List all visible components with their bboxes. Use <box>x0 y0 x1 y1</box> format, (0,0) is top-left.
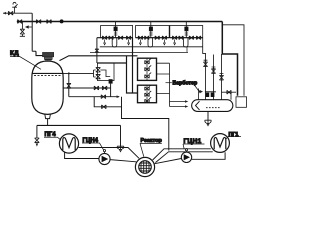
wire: drop from group1 bottom x132.5 <box>132 38 134 93</box>
wire: KD spray trunk y73.4 <box>63 70 96 77</box>
pump GCN4 <box>99 153 110 164</box>
lower IPU valve 1 <box>145 85 151 91</box>
group1 header line <box>97 37 133 39</box>
group2 loop seal <box>148 38 153 47</box>
pump GCN1 <box>181 152 191 162</box>
injection box top line <box>97 62 126 64</box>
wire: drop A to B at x187 <box>186 47 188 53</box>
group3 stub arrows <box>174 40 176 45</box>
upper IPU valve 3 <box>145 73 151 79</box>
wire: top-left relief line y13 <box>3 12 32 14</box>
wire: vertical x111 blob to y96.7 <box>110 84 112 97</box>
funnel under surge line <box>117 146 124 151</box>
bubbler top pad 1 <box>206 93 210 97</box>
group1 actuator stem <box>115 22 117 38</box>
group3 actuator stem <box>185 22 187 38</box>
arrow into bubbler lower <box>185 105 188 107</box>
group3 valve 1 <box>173 36 177 40</box>
group1 valve 4 <box>127 36 131 40</box>
svg-text:Барботер: Барботер <box>173 80 198 87</box>
wire: bubbler pipe 1 <box>203 38 206 100</box>
wire: T drop x126.5 to lower IPU box <box>127 56 138 93</box>
label Barboter <box>166 82 172 84</box>
group1 valve 3 <box>119 36 123 40</box>
reactor vessel <box>135 157 154 176</box>
group3 valve 4 <box>197 36 201 40</box>
wire: KD nozzle y88 <box>63 87 111 89</box>
wire: pump GCN4 to reactor <box>110 160 136 162</box>
injection internal link <box>100 70 110 77</box>
bubbler right-end box <box>236 97 247 108</box>
group1 valve 2 <box>109 36 113 40</box>
small arrow branch on x32.2 <box>26 26 32 28</box>
wire: lower header A y46.8 <box>100 46 203 48</box>
wire: arrow feed to bubbler lower <box>170 106 187 108</box>
KD level line <box>32 72 63 74</box>
pointer line from KD label <box>10 56 41 69</box>
safety group 3 box <box>170 26 203 38</box>
wire: surge elbow down to funnel <box>120 125 122 146</box>
bubbler top component bar <box>205 91 216 93</box>
pump GCN4 top stub <box>104 152 106 154</box>
group1 valve 1 <box>103 36 107 40</box>
wire: lower header B y52.4 <box>90 51 188 53</box>
group3 loop seal <box>183 38 188 47</box>
reactor core <box>139 161 152 174</box>
group2 actuator stem <box>150 22 152 38</box>
funnel under bubbler <box>205 120 211 125</box>
pump GCN4 rotor <box>102 156 109 162</box>
group2 header line <box>136 37 170 39</box>
safety group 2 box <box>136 26 170 38</box>
bubbler pipe3 valve <box>219 74 223 80</box>
bubbler pipe2 valve <box>211 67 215 73</box>
arrow below drain valve <box>36 143 39 146</box>
lower IPU valve 2 <box>145 91 151 97</box>
reactor core grid <box>139 161 151 173</box>
wire: vertical x68.8 <box>68 73 70 96</box>
wire: small pipe into bubbler top-left <box>198 89 200 100</box>
group1 stub arrows <box>104 40 130 45</box>
black valve at injection box corner <box>109 79 113 83</box>
wire: elbow into relief block <box>36 51 43 55</box>
group2 valve 3 <box>155 36 159 40</box>
arrow y96.7 <box>117 95 120 98</box>
arrow into bubbler upper <box>185 100 188 102</box>
relief valve block (hatched) on KD top <box>43 52 54 56</box>
wire: collector vertical x169.5 <box>169 63 171 106</box>
bubbler sparger hatch <box>206 107 220 109</box>
bubbler internal chevron <box>196 101 200 110</box>
safety group 1 box <box>101 26 133 38</box>
bubbler pipe1 valve <box>203 60 207 66</box>
wire: main steam header y21.5 <box>17 21 223 23</box>
pump GCN1 top stub <box>186 151 188 152</box>
relief block lower flange (hatched) <box>44 57 52 59</box>
upper IPU valve 1 <box>145 58 151 64</box>
valve on y106.8 <box>102 105 106 109</box>
wire: connector bar y92.2 <box>222 91 237 93</box>
arrow on small pipe <box>200 90 203 93</box>
upper IPU valve box <box>138 58 157 80</box>
group3 valve 3 <box>189 36 193 40</box>
bubbler pipe4 valve <box>227 90 231 94</box>
safety valve above relief line <box>12 2 17 13</box>
PG1 label shelf <box>226 137 241 140</box>
KD drain valve <box>35 138 40 143</box>
pressurizer KD vessel <box>32 61 63 114</box>
pump GCN1 rotor <box>184 154 190 160</box>
steam generator PG1 <box>211 134 230 153</box>
GCN1 label shelf <box>183 144 205 149</box>
valve on header x49 <box>47 20 51 24</box>
group1 actuator ticks <box>114 33 117 35</box>
KD level hatch <box>34 75 61 77</box>
lower IPU valve 3 <box>145 97 151 103</box>
group2 valve 1 <box>138 36 142 40</box>
wire: reactor to pump GCN1 <box>155 159 182 164</box>
valve on relief line <box>8 11 12 15</box>
wire: thin branch to right edge <box>222 25 244 96</box>
valve y88 b <box>102 86 106 90</box>
bubbler top pad 2 <box>211 93 215 97</box>
injection valve upper <box>96 68 101 72</box>
wire: bubbler pipe 2 <box>213 55 215 100</box>
group2 actuator black cap <box>149 27 153 32</box>
wire: hot leg PG4 to reactor <box>79 148 139 159</box>
KD bottom nozzle <box>45 114 51 125</box>
wire: pump GCN1 to PG1 <box>192 152 225 159</box>
wire: spray line from KD dome <box>60 56 138 61</box>
wire: drop from header x22.4 to drain valve <box>21 22 23 30</box>
valve on header x19.7 <box>18 20 22 24</box>
lower IPU valve box <box>138 85 157 103</box>
wire: group1 drop to injection box <box>96 38 98 63</box>
valve on y96.7 <box>101 95 105 99</box>
pointer from Barboter label <box>195 86 200 93</box>
lower IPU internal pipe <box>146 85 148 103</box>
wire: arrow feed to bubbler upper <box>170 101 187 103</box>
wire: y96.7 line with arrow <box>69 96 119 98</box>
group2 actuator ticks <box>149 33 152 35</box>
valve on x68.8 <box>67 83 71 88</box>
wire: reactor hot leg upper to PG1 <box>153 149 211 160</box>
bubbler tank <box>192 100 233 112</box>
injection box <box>97 63 114 81</box>
wire: vertical to pressurizer relief block x32.2 <box>32 13 36 51</box>
wire: bubbler pipe 4 stub <box>230 92 232 100</box>
wire: bubbler pipe 3 <box>221 54 223 100</box>
group1 loop seal <box>112 38 117 47</box>
wire: bubbler drain <box>207 111 209 120</box>
group2 valve 2 <box>145 36 149 40</box>
wire: drain path x123.5 down and over to reactor area <box>122 97 169 151</box>
injection valve lower <box>96 74 101 78</box>
PG4 label shelf <box>44 137 61 140</box>
wire: y106.8 staircase <box>94 97 121 107</box>
wire: reactor hot leg lower to PG1 <box>155 152 212 163</box>
PG1 internal M <box>214 137 226 149</box>
steam generator PG4 <box>59 134 78 153</box>
drain valve below x22.4 <box>20 29 25 36</box>
small valve on x96.9 <box>95 49 99 52</box>
valve on header x38.6 <box>36 20 40 24</box>
group2 stub arrows <box>139 40 165 45</box>
valve y88 a <box>94 86 98 90</box>
group3 header line <box>170 37 203 39</box>
GCN4 label shelf <box>82 143 104 150</box>
wire: IPU outlets to collector <box>157 63 170 93</box>
upper IPU internal pipe <box>146 58 148 80</box>
arrow left end of relief line <box>3 12 6 15</box>
group2 valve 4 <box>162 36 166 40</box>
KD neck <box>45 60 52 61</box>
Reaktor label shelf <box>140 143 162 156</box>
group1 actuator black cap <box>114 27 118 32</box>
group3 actuator black cap <box>184 27 188 32</box>
PG4 internal M <box>63 138 75 150</box>
wire: drain drop x36.9 <box>36 125 38 137</box>
wire: header corner down at x222.3 <box>222 22 237 96</box>
black joint on header <box>60 19 64 23</box>
wire: PG4 to pump GCN4 <box>65 152 99 158</box>
wire: KD surge line to loop <box>37 124 121 126</box>
junction blob on trunk <box>68 72 70 74</box>
upper IPU valve 2 <box>145 65 151 71</box>
group3 actuator ticks <box>185 33 188 35</box>
group3 valve 2 <box>179 36 183 40</box>
